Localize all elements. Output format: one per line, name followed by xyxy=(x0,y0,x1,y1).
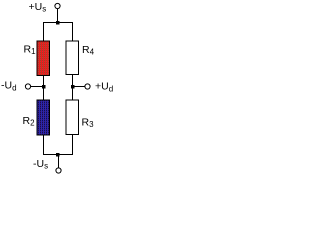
resistor R3 xyxy=(66,100,79,135)
terminal +Ud xyxy=(85,84,90,89)
svg-text:R3: R3 xyxy=(82,117,95,130)
resistor R1 xyxy=(37,41,50,76)
svg-text:R2: R2 xyxy=(23,115,36,128)
node: bottom junction xyxy=(56,153,60,157)
svg-text:+Ud: +Ud xyxy=(95,81,113,94)
node: -Ud junction xyxy=(42,85,46,89)
terminal -Ud xyxy=(25,84,30,89)
wire: R4 to node +Ud xyxy=(72,75,74,101)
svg-text:-Ud: -Ud xyxy=(1,80,17,93)
svg-text:-Us: -Us xyxy=(33,158,48,171)
wire: top rail xyxy=(43,22,73,24)
node: top junction xyxy=(56,21,60,25)
resistor R2 xyxy=(37,100,50,135)
svg-text:+Us: +Us xyxy=(29,1,47,14)
wire: R3 to bottom rail xyxy=(72,135,74,155)
wire: bottom node to -Us terminal xyxy=(58,155,60,168)
wire: bottom rail xyxy=(43,154,73,156)
svg-text:R4: R4 xyxy=(82,44,95,57)
terminal +Us xyxy=(55,3,60,8)
wire: top rail to R1 xyxy=(43,23,45,42)
wire: +Ud junction to terminal xyxy=(73,86,85,88)
node: +Ud junction xyxy=(71,85,75,89)
wire: +Us terminal to top node xyxy=(57,9,59,23)
resistor R4 xyxy=(66,41,79,75)
wire: R2 to bottom rail xyxy=(43,135,45,155)
svg-text:R1: R1 xyxy=(24,44,37,57)
wire: -Ud terminal to junction xyxy=(31,86,42,88)
wire: top rail to R4 xyxy=(72,23,74,42)
terminal -Us xyxy=(56,168,61,173)
wire: R1 to node -Ud xyxy=(43,76,45,101)
